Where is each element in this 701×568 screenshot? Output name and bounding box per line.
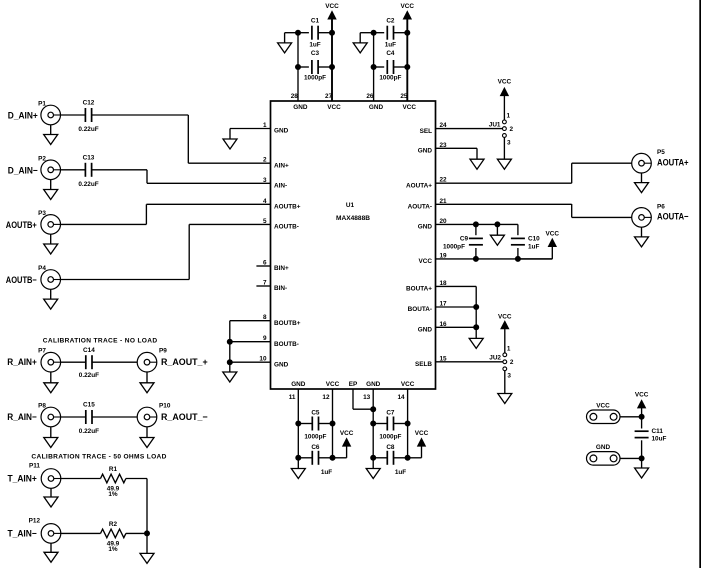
node junction EP-pin13 [371, 407, 376, 412]
pin 27 VCC top label [325, 93, 341, 111]
svg-text:AOUTA+: AOUTA+ [657, 157, 689, 167]
svg-text:BOUTB+: BOUTB+ [274, 320, 301, 327]
wire P8 to C15 [61, 416, 86, 418]
svg-text:P12: P12 [29, 517, 41, 524]
wire pin 22 to P5 [572, 163, 632, 183]
capacitor C4 [379, 50, 401, 82]
svg-text:VCC: VCC [415, 430, 429, 437]
wire P1 ground stub [50, 125, 52, 135]
svg-text:GND: GND [293, 104, 308, 111]
wire ground tap C9C10 [496, 224, 498, 235]
wire pin 12 vertical [332, 389, 334, 458]
svg-text:MAX4888B: MAX4888B [336, 215, 370, 222]
svg-text:R2: R2 [109, 521, 118, 528]
svg-text:P6: P6 [657, 203, 665, 210]
wire C10 top stem [517, 224, 519, 235]
svg-text:2: 2 [263, 157, 267, 164]
pin 17 BOUTA- stub and labels [408, 301, 477, 314]
node junction VCC-C11 [639, 414, 644, 419]
ground below P1 [44, 135, 58, 145]
pin 22 AOUTA+ stub and labels [406, 177, 572, 190]
svg-text:11: 11 [289, 394, 296, 401]
wire GND post to C11 [620, 457, 642, 459]
svg-text:P11: P11 [29, 463, 40, 470]
svg-text:VCC: VCC [401, 381, 415, 388]
wire to VCC arrow 1 [333, 446, 347, 458]
ground below P2 [44, 190, 58, 200]
wire C13 to pin 3 [92, 170, 147, 184]
svg-text:R_AIN−: R_AIN− [7, 412, 37, 422]
svg-text:1uF: 1uF [385, 42, 396, 49]
svg-text:VCC: VCC [498, 79, 512, 86]
wire to ground tap 2 [360, 33, 373, 43]
ground below P3 [44, 244, 58, 254]
svg-text:5: 5 [263, 218, 267, 225]
svg-text:1: 1 [507, 113, 511, 120]
svg-text:U1: U1 [346, 202, 355, 209]
node junction GND-C11 [639, 456, 644, 461]
wire JU1 to ground [503, 137, 505, 159]
capacitor C6 [311, 444, 332, 476]
ground below P6 [635, 237, 649, 247]
wire C4 right lead [394, 66, 408, 68]
node junction pin17 bus [474, 305, 479, 310]
svg-text:R_AIN+: R_AIN+ [7, 357, 37, 367]
ground below pin 10 bus [223, 372, 237, 382]
pin 14 VCC bottom label [397, 381, 414, 401]
svg-text:JU1: JU1 [489, 121, 501, 128]
svg-text:C4: C4 [386, 50, 395, 57]
svg-text:C11: C11 [652, 428, 664, 435]
svg-text:GND: GND [291, 381, 306, 388]
svg-text:C14: C14 [83, 347, 95, 354]
svg-text:BIN-: BIN- [274, 285, 287, 292]
svg-text:R1: R1 [109, 466, 118, 473]
svg-text:VCC: VCC [403, 104, 417, 111]
pin 18 BOUTA+ stub and labels [406, 280, 476, 293]
ground below P7 [44, 383, 58, 393]
wire C9 top stem [475, 224, 477, 235]
svg-text:C3: C3 [311, 50, 320, 57]
wire P9 ground stub [146, 372, 148, 383]
capacitor C9 [443, 236, 483, 251]
svg-text:1uF: 1uF [395, 469, 406, 476]
connector P9 [137, 348, 208, 373]
wire pin 25 vertical [406, 19, 408, 101]
ground below R1R2 [140, 553, 154, 563]
connector P4 [6, 265, 61, 289]
pin 13 GND bottom label [363, 381, 381, 401]
connector P8 [7, 402, 60, 427]
wire to ground tap [285, 33, 298, 43]
svg-text:0.22uF: 0.22uF [78, 181, 98, 188]
svg-text:AOUTA-: AOUTA- [408, 204, 432, 211]
pin 4 AOUTB+ stub and labels [146, 198, 300, 211]
pin 2 AIN+ stub and labels [188, 157, 289, 170]
wire P2 ground stub [50, 180, 52, 190]
ground below C11 [635, 468, 649, 478]
wire C15 to P10 [92, 416, 137, 418]
ground below pin16 bus [469, 338, 483, 348]
node junction pin28-C1 [296, 30, 301, 35]
svg-text:1000pF: 1000pF [379, 434, 401, 441]
pin 5 AOUTB- stub and labels [189, 218, 299, 231]
node junction pin11-C5 [296, 421, 301, 426]
svg-text:1000pF: 1000pF [443, 244, 465, 251]
svg-text:1000pF: 1000pF [304, 75, 326, 82]
wire C6 right lead [319, 457, 333, 459]
wire P12 ground stub [50, 543, 52, 552]
svg-text:BOUTA+: BOUTA+ [406, 286, 432, 293]
svg-text:8: 8 [263, 314, 267, 321]
connector P12 [8, 517, 61, 543]
svg-text:9: 9 [263, 335, 267, 342]
pin 16 GND stub and labels [418, 321, 476, 334]
ground pin 1 [223, 139, 237, 149]
connector P7 [7, 348, 60, 373]
svg-text:BIN+: BIN+ [274, 265, 289, 272]
capacitor C15 [79, 402, 99, 435]
pin 8 BOUTB+ stub and labels [230, 314, 301, 327]
node junction pin20-C9 [473, 222, 478, 227]
wire VCC arrow stem [641, 408, 643, 417]
pin 15 SELB stub and labels [415, 355, 503, 368]
svg-text:C8: C8 [386, 444, 395, 451]
wire P2 to C13 [61, 169, 86, 171]
svg-text:15: 15 [440, 355, 448, 362]
svg-text:SEL: SEL [420, 128, 433, 135]
resistor R1 [101, 466, 126, 498]
svg-text:24: 24 [440, 122, 448, 129]
svg-text:VCC: VCC [419, 258, 433, 265]
svg-text:R_AOUT_−: R_AOUT_− [161, 412, 208, 422]
node junction pin16 bus [474, 325, 479, 330]
svg-text:2: 2 [510, 126, 514, 133]
node junction pin19-C9 [473, 256, 478, 261]
node junction pin13-C7 [371, 421, 376, 426]
wire P3 ground stub [50, 234, 52, 244]
svg-text:VCC: VCC [325, 3, 339, 10]
wire JU2 to ground [504, 371, 506, 394]
jumper JU2 pin 3 [503, 367, 512, 380]
wire C2 right lead [394, 32, 408, 34]
node junction pin11-C6 [296, 455, 301, 460]
wire C8 right lead [394, 457, 408, 459]
svg-text:AIN-: AIN- [274, 183, 287, 190]
pin 23 GND stub and labels [418, 142, 477, 155]
svg-text:P3: P3 [38, 210, 46, 217]
svg-text:10uF: 10uF [652, 436, 667, 443]
svg-text:1%: 1% [108, 491, 118, 498]
capacitor C10 [511, 236, 540, 251]
wire C8 left lead [373, 457, 387, 459]
svg-text:GND: GND [418, 148, 433, 155]
svg-text:EP: EP [349, 381, 358, 388]
jumper JU2 label [489, 354, 501, 361]
wire C7 right lead [394, 423, 408, 425]
svg-text:AOUTB-: AOUTB- [274, 224, 299, 231]
resistor R2 [101, 521, 126, 553]
svg-text:C7: C7 [386, 410, 395, 417]
wire P5 ground stub [641, 173, 643, 183]
node junction pin14-C7 [405, 421, 410, 426]
capacitor C14 [79, 347, 99, 379]
ground near pin 26 [353, 43, 367, 53]
pin 24 SEL stub and labels [420, 122, 503, 135]
svg-text:21: 21 [440, 198, 448, 205]
svg-text:GND: GND [366, 381, 381, 388]
svg-text:1: 1 [507, 346, 511, 353]
connector VCC post [587, 402, 621, 423]
wire EP pin [353, 389, 373, 409]
jumper JU1 pin 2 [503, 126, 514, 133]
svg-text:C9: C9 [460, 236, 469, 243]
wire C9 bottom stem [475, 248, 477, 259]
node junction pin26-C2 [371, 30, 376, 35]
svg-text:P4: P4 [38, 265, 46, 272]
svg-text:C10: C10 [528, 236, 540, 243]
svg-text:4: 4 [263, 198, 267, 205]
wire P3 to pin 4 [61, 204, 147, 224]
node junction pin19-C10 [515, 256, 520, 261]
svg-text:20: 20 [440, 218, 448, 225]
svg-text:JU2: JU2 [489, 354, 501, 361]
jumper JU2 pin 1 [503, 346, 511, 357]
power VCC arrow pin 27 [325, 3, 339, 19]
wire pin19 to VCC [518, 247, 552, 259]
power VCC arrow pin19 [546, 230, 560, 246]
svg-text:P8: P8 [38, 402, 46, 409]
svg-text:1uF: 1uF [309, 42, 320, 49]
pin 6 BIN+ stub and labels [256, 260, 289, 273]
wire P8 ground stub [50, 427, 52, 438]
wire pin 18 bus down [475, 286, 477, 338]
svg-text:GND: GND [418, 224, 433, 231]
svg-text:28: 28 [291, 93, 299, 100]
svg-text:VCC: VCC [635, 391, 649, 398]
svg-text:GND: GND [596, 444, 611, 451]
wire R2 to bus [126, 532, 147, 534]
svg-text:VCC: VCC [326, 381, 340, 388]
svg-text:VCC: VCC [546, 230, 560, 237]
svg-text:BOUTB-: BOUTB- [274, 341, 299, 348]
svg-text:D_AIN−: D_AIN− [8, 165, 39, 175]
node junction pin9 bus [227, 339, 232, 344]
pin 11 GND bottom label [289, 381, 306, 401]
ground below P9 [140, 383, 154, 393]
svg-text:13: 13 [363, 394, 371, 401]
svg-text:AOUTB−: AOUTB− [6, 275, 37, 285]
wire P11 to R1 [61, 478, 101, 480]
svg-text:1: 1 [263, 122, 267, 129]
svg-text:C6: C6 [311, 444, 320, 451]
power VCC arrow bottom 1 [340, 430, 354, 446]
svg-text:VCC: VCC [596, 402, 610, 409]
wire P12 to R2 [61, 532, 101, 534]
node junction pin27-C1 [330, 30, 335, 35]
pin 1 GND stub and labels [230, 122, 289, 135]
node junction pin12-C6 [330, 455, 335, 460]
svg-text:0.22uF: 0.22uF [79, 428, 99, 435]
svg-text:P2: P2 [38, 155, 46, 162]
svg-text:D_AIN+: D_AIN+ [8, 111, 39, 121]
wire pin 13 vertical [372, 389, 374, 469]
wire C3 left lead [298, 66, 309, 68]
ground below P11 [44, 497, 58, 507]
svg-text:T_AIN+: T_AIN+ [8, 474, 38, 484]
wire C1 left lead [298, 32, 309, 34]
wire P4 ground stub [50, 289, 52, 299]
svg-text:10: 10 [259, 356, 267, 363]
pin 10 GND stub and labels [230, 356, 289, 369]
svg-text:P10: P10 [159, 402, 171, 409]
svg-text:12: 12 [322, 394, 330, 401]
wire pin 28 vertical [297, 33, 299, 101]
wire C2 left lead [374, 32, 385, 34]
svg-text:R_AOUT_+: R_AOUT_+ [161, 357, 208, 367]
svg-text:VCC: VCC [498, 314, 512, 321]
ground below pin 13 [366, 469, 380, 479]
node junction pin10 bus [227, 360, 232, 365]
wire C4 left lead [374, 66, 385, 68]
node junction pin25-C4 [405, 65, 410, 70]
wire P7 ground stub [50, 372, 52, 383]
connector P3 [6, 210, 61, 234]
node junction R1 R2 [145, 531, 150, 536]
svg-text:16: 16 [440, 321, 448, 328]
svg-text:GND: GND [369, 104, 384, 111]
wire C7 left lead [373, 423, 387, 425]
svg-text:3: 3 [263, 177, 267, 184]
svg-text:26: 26 [366, 93, 374, 100]
svg-text:C1: C1 [311, 18, 320, 25]
node junction pin14-C8 [405, 455, 410, 460]
svg-text:SELB: SELB [415, 361, 432, 368]
wire C5 right lead [319, 423, 333, 425]
svg-text:3: 3 [507, 373, 511, 380]
jumper JU1 label [489, 121, 501, 128]
node junction pin28-C3 [296, 65, 301, 70]
ground below P8 [44, 438, 58, 448]
pin 9 BOUTB- stub and labels [230, 335, 299, 348]
wire C10 bottom stem [517, 248, 519, 259]
wire pin 26 vertical [373, 33, 375, 101]
jumper JU1 pin 3 [503, 134, 512, 147]
pin 21 AOUTA- stub and labels [408, 198, 572, 211]
svg-text:VCC: VCC [401, 3, 415, 10]
svg-text:P1: P1 [38, 101, 46, 108]
ground below JU1 [497, 159, 511, 169]
pin 7 BIN- stub and labels [256, 280, 287, 293]
svg-text:17: 17 [440, 301, 448, 308]
pin EP bottom label [349, 381, 358, 388]
wire C3 right lead [318, 66, 332, 68]
svg-text:1000pF: 1000pF [379, 75, 401, 82]
text calibration 50 ohms [31, 453, 166, 460]
svg-text:1uF: 1uF [528, 244, 539, 251]
jumper JU2 pin 2 [503, 359, 514, 366]
svg-text:VCC: VCC [327, 104, 341, 111]
svg-text:1000pF: 1000pF [304, 434, 326, 441]
svg-text:3: 3 [507, 140, 511, 147]
svg-text:BOUTA-: BOUTA- [408, 306, 432, 313]
svg-text:AIN+: AIN+ [274, 162, 289, 169]
svg-text:7: 7 [263, 280, 267, 287]
svg-text:14: 14 [397, 394, 405, 401]
capacitor C5 [304, 410, 326, 441]
wire pin 8 bus down [229, 321, 231, 372]
svg-text:1uF: 1uF [321, 469, 332, 476]
svg-text:C15: C15 [83, 402, 95, 409]
pin 19 VCC stub and labels [419, 252, 553, 265]
node junction pin26-C4 [371, 65, 376, 70]
svg-text:GND: GND [418, 327, 433, 334]
wire pin 27 vertical [331, 19, 333, 101]
svg-text:19: 19 [440, 252, 448, 259]
svg-text:C13: C13 [83, 154, 95, 161]
capacitor C8 [386, 444, 406, 476]
connector P5 [632, 149, 689, 173]
svg-text:GND: GND [274, 128, 289, 135]
ground below JU2 [498, 394, 512, 404]
wire C14 to P9 [92, 361, 137, 363]
svg-text:AOUTB+: AOUTB+ [274, 204, 301, 211]
capacitor C2 [385, 18, 396, 49]
svg-text:18: 18 [440, 280, 448, 287]
wire C11 bottom stem [641, 440, 643, 458]
connector P11 [8, 463, 61, 489]
wire P11 ground stub [50, 488, 52, 497]
svg-text:0.22uF: 0.22uF [79, 372, 99, 379]
wire P6 ground stub [641, 227, 643, 237]
svg-text:CALIBRATION TRACE - NO LOAD: CALIBRATION TRACE - NO LOAD [43, 337, 158, 344]
wire bus to ground [146, 533, 148, 553]
wire to VCC arrow 2 [408, 446, 422, 458]
wire pin 11 vertical [297, 389, 299, 469]
node junction pin27-C3 [330, 65, 335, 70]
wire pin 21 to P6 [572, 204, 632, 217]
connector P2 [8, 155, 61, 179]
svg-text:C2: C2 [386, 18, 395, 25]
svg-text:AOUTA+: AOUTA+ [406, 182, 432, 189]
capacitor C13 [78, 154, 98, 188]
wire R1 to bus [126, 479, 147, 534]
pin 20 GND stub and labels [418, 218, 518, 231]
jumper JU1 pin 1 [503, 113, 511, 124]
pin 25 VCC top label [400, 93, 416, 111]
power VCC arrow C11 [635, 391, 649, 408]
svg-text:6: 6 [263, 260, 267, 267]
svg-text:P5: P5 [657, 149, 665, 156]
wire C12 to pin 2 [92, 115, 189, 163]
wire pin 14 vertical [407, 389, 409, 458]
svg-text:1%: 1% [108, 546, 118, 553]
capacitor C1 [309, 18, 320, 49]
svg-text:VCC: VCC [340, 430, 354, 437]
node junction pin25-C2 [405, 30, 410, 35]
wire pin 1 to ground [229, 129, 231, 140]
op-amp U1 MAX4888B IC body [271, 101, 436, 389]
pin 3 AIN- stub and labels [147, 177, 287, 190]
ground below pin 11 [291, 469, 305, 479]
svg-text:AOUTA−: AOUTA− [657, 212, 689, 222]
ground pin 23 [470, 159, 484, 169]
svg-text:T_AIN−: T_AIN− [8, 528, 38, 538]
power VCC arrow bottom 2 [415, 430, 429, 446]
ground between C9 C10 [490, 235, 504, 245]
svg-text:23: 23 [440, 142, 448, 149]
wire JU1 VCC stem [503, 95, 505, 120]
